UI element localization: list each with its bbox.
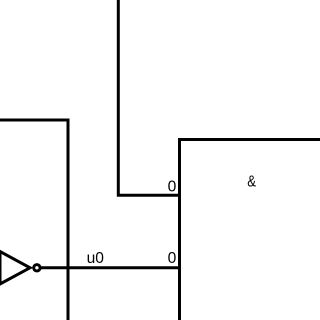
svg-text:u0: u0 [87, 250, 105, 267]
svg-text:0: 0 [168, 250, 177, 267]
svg-text:&: & [247, 173, 256, 190]
svg-text:0: 0 [168, 179, 177, 196]
